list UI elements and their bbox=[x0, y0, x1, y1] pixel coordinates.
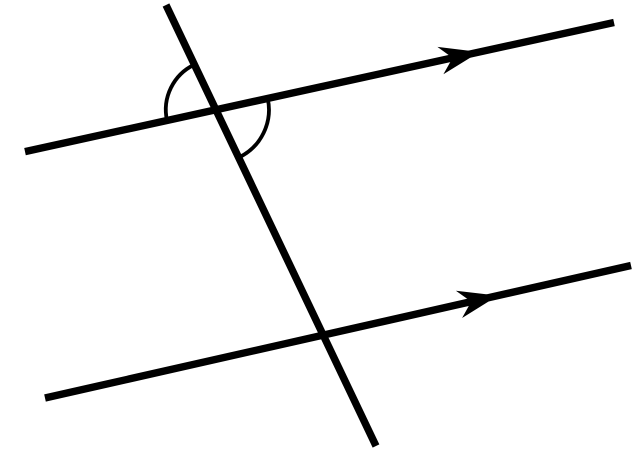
wire transversal bbox=[166, 5, 376, 446]
line lower parallel bbox=[45, 266, 631, 399]
line upper parallel bbox=[25, 23, 614, 152]
arrowhead upper line bbox=[437, 47, 479, 74]
arc upper-left angle bbox=[166, 65, 195, 121]
arc lower-right angle bbox=[239, 98, 269, 157]
arrowhead lower line bbox=[456, 291, 498, 318]
